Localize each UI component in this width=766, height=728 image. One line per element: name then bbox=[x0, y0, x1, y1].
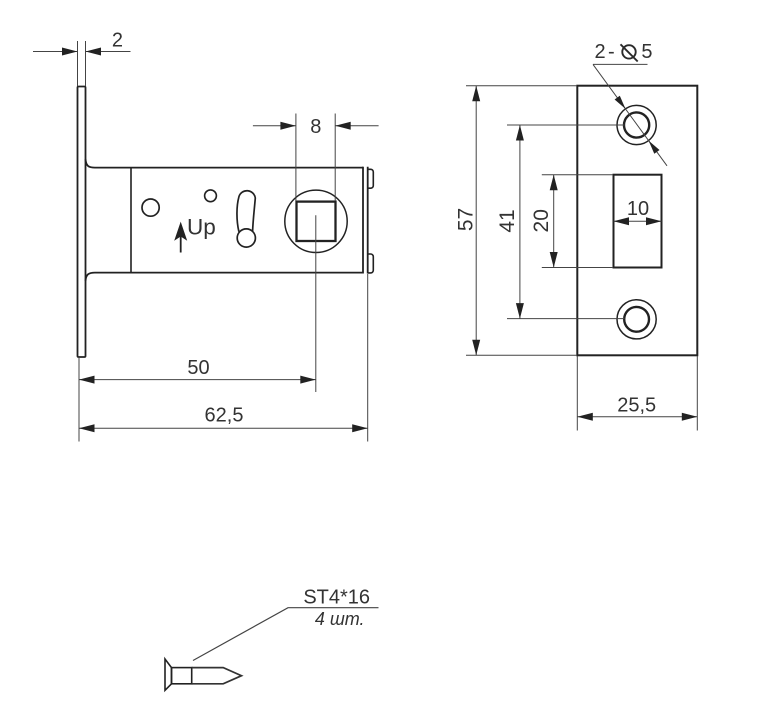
dimension 41 line bbox=[519, 125, 521, 319]
screw threaded part bbox=[192, 668, 242, 684]
svg-text:25,5: 25,5 bbox=[617, 394, 656, 416]
svg-text:20: 20 bbox=[530, 209, 553, 232]
extension line plate bottom bbox=[466, 354, 577, 356]
dimension 25,5 line bbox=[577, 416, 697, 418]
latch body top edge with fillet bbox=[86, 159, 364, 168]
dimension 25,5 extension right bbox=[696, 356, 698, 431]
extension line opening bottom bbox=[542, 267, 613, 269]
slot end circle bbox=[237, 229, 255, 247]
strike plate top hole outer bbox=[617, 105, 656, 144]
dimension 62,5 line bbox=[79, 427, 368, 429]
svg-text:41: 41 bbox=[496, 209, 519, 232]
latch body bottom edge with fillet bbox=[86, 273, 364, 281]
extension line square center down bbox=[315, 215, 317, 392]
svg-text:4 шт.: 4 шт. bbox=[315, 609, 365, 629]
faceplate side view bbox=[78, 87, 86, 358]
small hole on body bbox=[205, 190, 217, 202]
spindle circle bbox=[285, 190, 347, 252]
extension line bottom hole center bbox=[507, 318, 625, 320]
dimension 8 line right bbox=[335, 125, 378, 127]
dimension 57 line bbox=[475, 86, 477, 356]
dimension 10 line bbox=[614, 220, 662, 222]
extension line plate left down bbox=[78, 358, 80, 442]
dimension 50 line bbox=[79, 379, 316, 381]
svg-text:-: - bbox=[608, 41, 615, 63]
svg-text:Up: Up bbox=[187, 215, 216, 240]
Up arrow bbox=[180, 236, 182, 253]
strike plate front view bbox=[577, 86, 697, 356]
latch body second right edge bbox=[367, 167, 369, 274]
strike plate bottom hole outer bbox=[617, 300, 656, 339]
kidney slot bbox=[237, 191, 255, 232]
strike plate latch opening bbox=[614, 175, 662, 268]
svg-text:57: 57 bbox=[455, 208, 478, 231]
svg-text:8: 8 bbox=[310, 116, 321, 138]
extension line body right down bbox=[367, 274, 369, 442]
bolt tab top bbox=[368, 169, 374, 188]
bolt tab bottom bbox=[368, 254, 374, 273]
extension line plate top bbox=[466, 85, 577, 87]
diameter symbol circle bbox=[622, 45, 635, 58]
screw leader line bbox=[193, 608, 379, 661]
leader arrow lower bbox=[649, 141, 660, 154]
svg-text:5: 5 bbox=[641, 41, 652, 63]
leader arrow upper bbox=[615, 96, 626, 109]
strike plate bottom hole inner bbox=[624, 307, 649, 332]
extension line plate top right bbox=[85, 41, 87, 86]
extension line opening top bbox=[542, 174, 613, 176]
dimension 8 line left bbox=[253, 125, 296, 127]
svg-text:2: 2 bbox=[112, 30, 123, 52]
spindle square bbox=[297, 202, 336, 241]
latch body inner vertical line bbox=[130, 168, 132, 273]
strike plate top hole inner bbox=[624, 112, 649, 137]
diameter symbol slash bbox=[621, 44, 638, 61]
latch body right edge bbox=[362, 167, 364, 274]
svg-text:50: 50 bbox=[187, 357, 209, 379]
svg-text:2: 2 bbox=[595, 41, 606, 63]
screw shank bbox=[172, 668, 192, 684]
svg-text:10: 10 bbox=[627, 198, 649, 220]
dimension 25,5 extension left bbox=[576, 356, 578, 431]
screw hole on body bbox=[142, 199, 159, 216]
dimension 2 line left bbox=[33, 51, 78, 53]
svg-text:ST4*16: ST4*16 bbox=[303, 587, 370, 609]
screw head bbox=[165, 659, 172, 690]
extension line square left bbox=[295, 114, 297, 202]
extension line top hole center bbox=[507, 124, 625, 126]
label underline bbox=[593, 63, 648, 65]
extension line square right bbox=[334, 114, 336, 202]
svg-text:62,5: 62,5 bbox=[205, 405, 244, 427]
dimension 20 line bbox=[553, 175, 555, 268]
leader diagonal line bbox=[593, 64, 667, 165]
dimension 2 line right bbox=[86, 51, 131, 53]
extension line plate top left bbox=[77, 41, 79, 86]
